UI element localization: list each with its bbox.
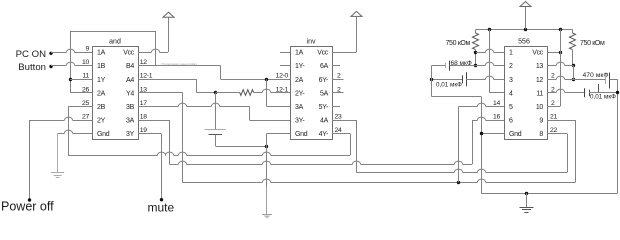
svg-text:2B: 2B [97, 104, 106, 111]
svg-text:5Y-: 5Y- [319, 104, 329, 111]
svg-text:0,01 мкФ: 0,01 мкФ [436, 82, 462, 89]
svg-text:3A: 3A [295, 104, 304, 111]
svg-text:Power off: Power off [1, 200, 54, 214]
svg-text:2Y-: 2Y- [295, 90, 305, 97]
svg-text:4A: 4A [320, 118, 329, 125]
svg-text:Справочная шина пайка: Справочная шина пайка [161, 63, 197, 67]
svg-text:3Y: 3Y [126, 131, 135, 138]
svg-text:12-0: 12-0 [276, 73, 289, 80]
svg-text:5A: 5A [320, 90, 329, 97]
svg-text:2: 2 [551, 100, 555, 107]
svg-text:12-1: 12-1 [140, 73, 153, 80]
svg-text:Y4: Y4 [126, 90, 134, 97]
svg-text:Vcc: Vcc [123, 50, 135, 57]
svg-text:17: 17 [140, 100, 147, 107]
svg-text:mute: mute [148, 200, 175, 214]
svg-text:9: 9 [539, 118, 543, 125]
svg-text:11: 11 [536, 90, 543, 97]
svg-text:18: 18 [140, 114, 147, 121]
svg-text:Gnd: Gnd [509, 131, 522, 138]
svg-text:2A: 2A [97, 90, 106, 97]
svg-text:3Y-: 3Y- [295, 118, 305, 125]
svg-text:12: 12 [536, 77, 544, 84]
svg-text:14: 14 [493, 100, 500, 107]
svg-text:1A: 1A [97, 50, 106, 57]
svg-text:470 мкФ: 470 мкФ [583, 72, 609, 79]
svg-text:0,01 мкФ: 0,01 мкФ [590, 94, 616, 101]
svg-text:6A: 6A [320, 63, 329, 70]
svg-text:B4: B4 [126, 63, 134, 70]
svg-text:Gnd: Gnd [295, 131, 308, 138]
svg-text:3A: 3A [126, 118, 135, 125]
svg-text:1B: 1B [97, 63, 106, 70]
svg-text:5: 5 [509, 104, 513, 111]
svg-text:750 кОм: 750 кОм [446, 40, 471, 47]
svg-text:68 мкФ: 68 мкФ [451, 60, 472, 67]
svg-text:750 кОм: 750 кОм [580, 40, 605, 47]
svg-text:Button: Button [18, 62, 46, 73]
svg-text:Gnd: Gnd [97, 131, 110, 138]
svg-text:Vcc: Vcc [317, 50, 329, 57]
svg-text:2A: 2A [295, 77, 304, 84]
svg-text:2Y: 2Y [97, 118, 106, 125]
svg-text:and: and [109, 39, 121, 46]
svg-text:1Y-: 1Y- [295, 63, 305, 70]
svg-text:1: 1 [509, 50, 513, 57]
svg-text:1Y: 1Y [97, 77, 106, 84]
svg-text:556: 556 [518, 39, 530, 46]
svg-text:6Y-: 6Y- [319, 77, 329, 84]
svg-text:10: 10 [536, 104, 544, 111]
svg-text:2: 2 [551, 73, 555, 80]
svg-text:Vcc: Vcc [532, 50, 544, 57]
svg-text:2: 2 [509, 63, 513, 70]
svg-text:9: 9 [86, 46, 90, 53]
svg-text:4: 4 [509, 90, 513, 97]
svg-text:3B: 3B [126, 104, 135, 111]
svg-text:2: 2 [337, 73, 341, 80]
svg-text:1A: 1A [295, 50, 304, 57]
svg-text:27: 27 [82, 114, 89, 121]
svg-text:13: 13 [536, 63, 544, 70]
svg-text:8: 8 [539, 131, 543, 138]
svg-text:11: 11 [83, 73, 90, 80]
svg-text:16: 16 [493, 114, 500, 121]
svg-text:23: 23 [335, 114, 342, 121]
svg-text:A4: A4 [126, 77, 134, 84]
svg-text:3: 3 [509, 77, 513, 84]
svg-text:4Y-: 4Y- [319, 131, 329, 138]
svg-text:21: 21 [550, 114, 557, 121]
svg-text:PC ON: PC ON [16, 49, 46, 60]
svg-text:6: 6 [509, 118, 513, 125]
svg-text:inv: inv [307, 39, 316, 46]
svg-text:25: 25 [82, 100, 89, 107]
